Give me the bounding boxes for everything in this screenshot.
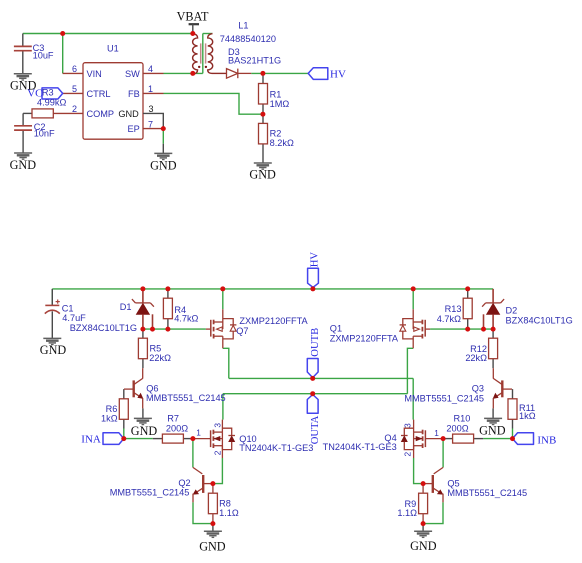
svg-text:2: 2: [403, 452, 413, 457]
svg-text:INB: INB: [537, 435, 556, 447]
svg-text:1.1Ω: 1.1Ω: [397, 508, 417, 518]
svg-text:200Ω: 200Ω: [446, 424, 468, 434]
svg-text:HV: HV: [310, 252, 321, 268]
svg-text:VIN: VIN: [87, 69, 102, 79]
svg-text:OUTB: OUTB: [310, 328, 321, 357]
svg-text:Q5: Q5: [447, 478, 459, 488]
svg-text:GND: GND: [150, 158, 177, 172]
svg-text:Q3: Q3: [472, 384, 484, 394]
svg-text:Q1: Q1: [330, 323, 342, 333]
svg-text:MMBT5551_C2145: MMBT5551_C2145: [447, 488, 527, 498]
svg-text:U1: U1: [107, 43, 119, 53]
svg-text:R3: R3: [42, 87, 54, 97]
svg-text:BZX84C10LT1G: BZX84C10LT1G: [70, 323, 137, 333]
svg-text:ZXMP2120FFTA: ZXMP2120FFTA: [239, 316, 308, 326]
svg-text:MMBT5551_C2145: MMBT5551_C2145: [146, 393, 226, 403]
svg-text:COMP: COMP: [87, 109, 115, 119]
svg-text:GND: GND: [131, 424, 158, 438]
svg-text:6: 6: [72, 64, 77, 74]
svg-text:2: 2: [213, 450, 223, 455]
svg-text:GND: GND: [118, 109, 139, 119]
svg-text:3: 3: [213, 423, 223, 428]
svg-text:22kΩ: 22kΩ: [149, 353, 171, 363]
svg-text:1: 1: [434, 428, 439, 438]
svg-text:R2: R2: [270, 128, 282, 138]
svg-text:10uF: 10uF: [33, 50, 54, 60]
svg-text:200Ω: 200Ω: [166, 424, 188, 434]
svg-text:1kΩ: 1kΩ: [101, 413, 118, 423]
svg-text:1: 1: [148, 84, 153, 94]
svg-text:Q2: Q2: [178, 478, 190, 488]
svg-text:MMBT5551_C2145: MMBT5551_C2145: [404, 393, 484, 403]
svg-text:10nF: 10nF: [34, 129, 55, 139]
svg-text:TN2404K-T1-GE3: TN2404K-T1-GE3: [239, 443, 313, 453]
svg-text:4.99kΩ: 4.99kΩ: [37, 97, 66, 107]
svg-text:3: 3: [149, 104, 154, 114]
svg-text:R6: R6: [106, 404, 118, 414]
svg-text:1: 1: [196, 428, 201, 438]
svg-text:R10: R10: [454, 413, 471, 423]
svg-text:22kΩ: 22kΩ: [465, 353, 487, 363]
svg-text:74488540120: 74488540120: [220, 34, 276, 44]
svg-text:GND: GND: [410, 539, 437, 553]
svg-text:3: 3: [403, 423, 413, 428]
svg-text:4.7kΩ: 4.7kΩ: [174, 314, 198, 324]
svg-text:7: 7: [148, 120, 153, 130]
svg-text:EP: EP: [128, 124, 140, 134]
svg-text:4.7kΩ: 4.7kΩ: [437, 314, 461, 324]
svg-text:BZX84C10LT1G: BZX84C10LT1G: [506, 315, 573, 325]
svg-text:SW: SW: [125, 69, 140, 79]
svg-text:BAS21HT1G: BAS21HT1G: [228, 56, 281, 66]
svg-text:5: 5: [72, 84, 77, 94]
svg-text:ZXMP2120FFTA: ZXMP2120FFTA: [330, 333, 399, 343]
svg-text:C1: C1: [62, 303, 74, 313]
svg-text:2: 2: [72, 104, 77, 114]
svg-text:D2: D2: [506, 305, 518, 315]
svg-text:GND: GND: [10, 158, 37, 172]
svg-text:4: 4: [148, 64, 153, 74]
svg-text:GND: GND: [40, 343, 67, 357]
svg-text:FB: FB: [128, 89, 140, 99]
svg-text:R7: R7: [167, 413, 179, 423]
svg-text:CTRL: CTRL: [87, 89, 111, 99]
svg-text:D1: D1: [120, 302, 132, 312]
svg-text:1kΩ: 1kΩ: [519, 411, 536, 421]
svg-text:L1: L1: [238, 20, 248, 30]
svg-text:GND: GND: [199, 539, 226, 553]
svg-text:GND: GND: [479, 423, 506, 437]
svg-text:OUTA: OUTA: [310, 415, 321, 444]
svg-text:HV: HV: [330, 69, 346, 81]
svg-text:MMBT5551_C2145: MMBT5551_C2145: [110, 488, 190, 498]
svg-text:R13: R13: [445, 304, 462, 314]
svg-text:GND: GND: [249, 168, 276, 182]
svg-text:VBAT: VBAT: [177, 10, 209, 24]
svg-text:8.2kΩ: 8.2kΩ: [270, 138, 294, 148]
svg-text:Q7: Q7: [236, 326, 248, 336]
svg-text:4.7uF: 4.7uF: [62, 313, 86, 323]
svg-text:INA: INA: [81, 434, 101, 446]
svg-text:TN2404K-T1-GE3: TN2404K-T1-GE3: [323, 442, 397, 452]
svg-text:1.1Ω: 1.1Ω: [219, 508, 239, 518]
svg-text:1MΩ: 1MΩ: [270, 99, 290, 109]
